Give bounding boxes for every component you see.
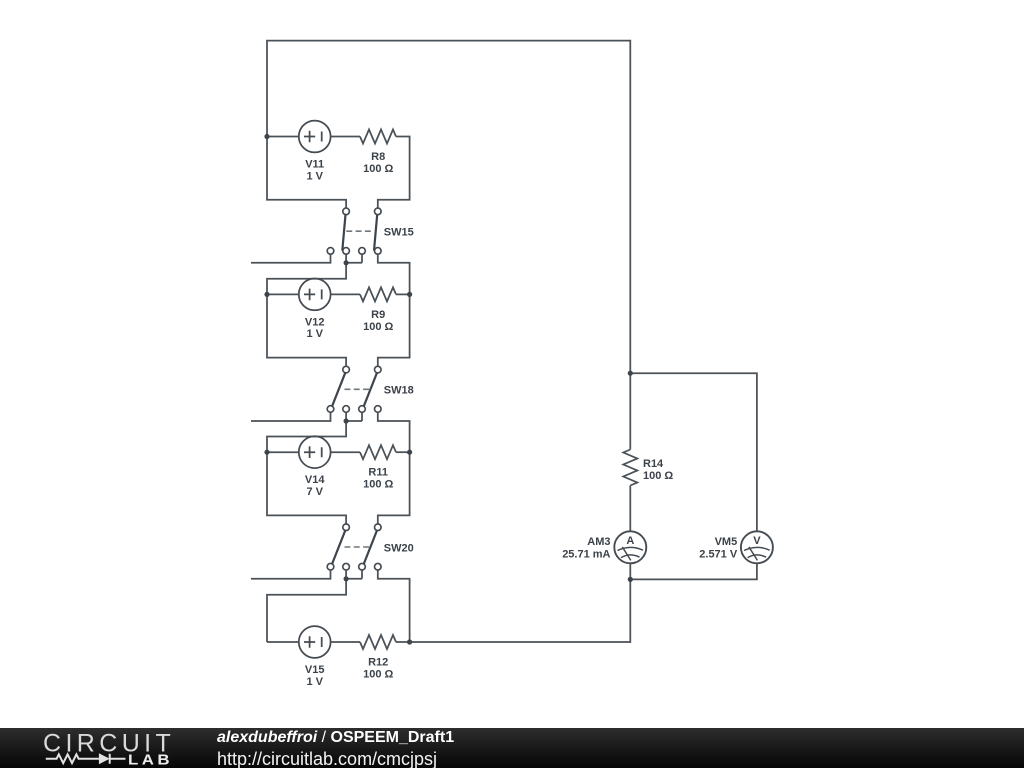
svg-text:25.71 mA: 25.71 mA (562, 548, 610, 560)
svg-text:V: V (753, 535, 761, 547)
wire R14 top lead (629, 373, 631, 449)
node V11 left junction (264, 134, 269, 139)
svg-text:R12: R12 (368, 657, 388, 669)
wire V14 to SW20 left pole (267, 452, 346, 524)
node SW20 throw junction (344, 576, 349, 581)
wire SW15 to V12 (267, 263, 346, 295)
node V14 left junction (264, 450, 269, 455)
svg-text:7 V: 7 V (306, 486, 323, 498)
wire bottom tie to VM5 (630, 563, 757, 579)
svg-text:100 Ω: 100 Ω (363, 669, 393, 681)
wire SW18 to V14 (267, 421, 346, 452)
svg-text:SW20: SW20 (384, 542, 414, 554)
svg-text:1 V: 1 V (306, 170, 323, 182)
voltage source V11 (299, 121, 331, 153)
voltage source V14 (299, 436, 331, 468)
svg-text:1 V: 1 V (306, 328, 323, 340)
wire SW15 throw4 to R9 right rail (378, 254, 410, 294)
svg-text:V15: V15 (305, 664, 325, 676)
node R12 right junction (407, 639, 412, 644)
wire outer top loop (267, 41, 630, 374)
wire SW15 throw1 stub (251, 254, 331, 263)
wire V11 left lead (267, 136, 299, 138)
wire V14 left lead (267, 451, 299, 453)
wire SW18 throw4 to R11 right rail (378, 412, 410, 452)
wire V12 left lead (267, 293, 299, 295)
svg-text:R9: R9 (371, 309, 385, 321)
svg-text:100 Ω: 100 Ω (363, 479, 393, 491)
wire R11 rail to SW20 right pole (378, 452, 410, 524)
wire SW18 throw2 stem (345, 412, 347, 421)
CircuitLab logo (0, 728, 210, 768)
svg-text:100 Ω: 100 Ω (363, 321, 393, 333)
svg-text:100 Ω: 100 Ω (643, 470, 673, 482)
wire SW20 throw2-throw3 tie (346, 570, 362, 579)
svg-text:LAB: LAB (128, 753, 173, 768)
switch SW20 (327, 524, 381, 570)
svg-text:V11: V11 (305, 159, 324, 171)
node SW18 throw junction (344, 418, 349, 423)
wire R8 to SW15 right pole (378, 137, 410, 209)
wire V11 to SW15 left pole (267, 137, 346, 209)
svg-text:100 Ω: 100 Ω (363, 163, 393, 175)
wire V12 to R9 (331, 293, 361, 295)
resistor R12 (360, 635, 396, 649)
resistor R8 (360, 130, 396, 144)
voltage source V15 (299, 626, 331, 658)
wire SW20 throw4 to R12 right rail (378, 570, 410, 642)
wire AM3 bottom lead (629, 563, 631, 579)
svg-text:R14: R14 (643, 458, 664, 470)
wire SW15 throw2 stem (345, 254, 347, 263)
wire V15 left lead (267, 641, 299, 643)
svg-text:V14: V14 (305, 474, 325, 486)
wire V11 to R8 (331, 136, 361, 138)
voltmeter VM5 (741, 531, 773, 563)
wire R9 right lead (396, 293, 410, 295)
svg-text:SW18: SW18 (384, 385, 414, 397)
ammeter AM3 (614, 531, 646, 563)
node AM3 bottom junction (628, 577, 633, 582)
node R11 right junction (407, 450, 412, 455)
wire VM5 branch top (630, 373, 757, 532)
wire V12 to SW18 left pole (267, 294, 346, 366)
footer bar (0, 728, 1024, 768)
svg-text:A: A (626, 535, 634, 547)
svg-text:R11: R11 (368, 467, 388, 479)
svg-text:V12: V12 (305, 316, 325, 328)
node SW15 throw junction (344, 260, 349, 265)
wire SW20 to V15 (267, 579, 346, 642)
svg-text:R8: R8 (371, 151, 385, 163)
svg-text:SW15: SW15 (384, 226, 414, 238)
voltage source V12 (299, 279, 331, 311)
node V12 left junction (264, 292, 269, 297)
wire R9 rail to SW18 right pole (378, 294, 410, 366)
wire R12 to AM3 bottom rail (396, 579, 630, 642)
node R14 top junction (628, 371, 633, 376)
switch SW15 (327, 208, 381, 254)
resistor R14 (623, 450, 637, 486)
wire R14 bottom lead to AM3 (629, 486, 631, 532)
svg-text:AM3: AM3 (587, 536, 610, 548)
svg-text:2.571 V: 2.571 V (699, 548, 738, 560)
svg-text:VM5: VM5 (715, 536, 738, 548)
resistor R11 (360, 445, 396, 459)
switch SW18 (327, 366, 381, 412)
wire SW15 throw2-throw3 tie (346, 254, 362, 263)
node R9 right junction (407, 292, 412, 297)
wire SW18 throw2-throw3 tie (346, 412, 362, 421)
wire SW20 throw1 stub (251, 570, 331, 579)
wire SW20 throw2 stem (345, 570, 347, 579)
wire V14 to R11 (331, 451, 361, 453)
wire V15 to R12 (331, 641, 361, 643)
resistor R9 (360, 287, 396, 301)
svg-text:1 V: 1 V (306, 676, 323, 688)
wire SW18 throw1 stub (251, 412, 331, 421)
wire R11 right lead (396, 451, 410, 453)
